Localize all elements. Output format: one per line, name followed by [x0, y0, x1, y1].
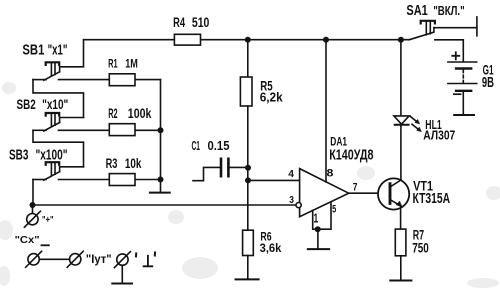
svg-text:АЛ307: АЛ307 [423, 129, 455, 143]
svg-text:1: 1 [314, 210, 319, 225]
svg-text:4: 4 [288, 168, 294, 180]
svg-text:9В: 9В [482, 75, 494, 91]
svg-text:"x1": "x1" [48, 43, 68, 59]
svg-text:R1: R1 [108, 57, 118, 71]
svg-text:5: 5 [332, 204, 337, 216]
svg-text:SB2: SB2 [17, 96, 36, 112]
svg-text:0.15: 0.15 [208, 138, 230, 153]
svg-text:"x10": "x10" [42, 96, 68, 112]
svg-text:R3: R3 [106, 156, 118, 171]
svg-text:R4: R4 [173, 15, 185, 30]
svg-text:510: 510 [192, 15, 210, 30]
svg-text:7: 7 [353, 181, 358, 193]
svg-text:10k: 10k [125, 156, 142, 171]
svg-text:SB1: SB1 [22, 43, 44, 59]
svg-text:"+": "+" [42, 214, 54, 226]
svg-text:8: 8 [327, 168, 334, 180]
svg-text:100k: 100k [128, 105, 152, 121]
svg-text:R2: R2 [108, 105, 118, 121]
svg-text:3,6k: 3,6k [260, 241, 282, 255]
svg-text:6,2k: 6,2k [260, 91, 283, 105]
svg-text:1M: 1M [125, 57, 138, 71]
svg-text:750: 750 [412, 240, 429, 256]
svg-text:C1: C1 [192, 138, 201, 153]
svg-text:"Iут": "Iут" [86, 254, 112, 266]
svg-text:SB3: SB3 [9, 148, 28, 164]
svg-text:К140УД8: К140УД8 [329, 147, 373, 164]
svg-text:"Сх": "Сх" [15, 234, 40, 246]
svg-text:3: 3 [289, 194, 294, 206]
svg-text:КТ315А: КТ315А [413, 191, 451, 207]
svg-text:"ВКЛ.": "ВКЛ." [433, 3, 465, 18]
svg-text:"x100": "x100" [36, 148, 68, 164]
svg-text:SA1: SA1 [406, 3, 427, 19]
